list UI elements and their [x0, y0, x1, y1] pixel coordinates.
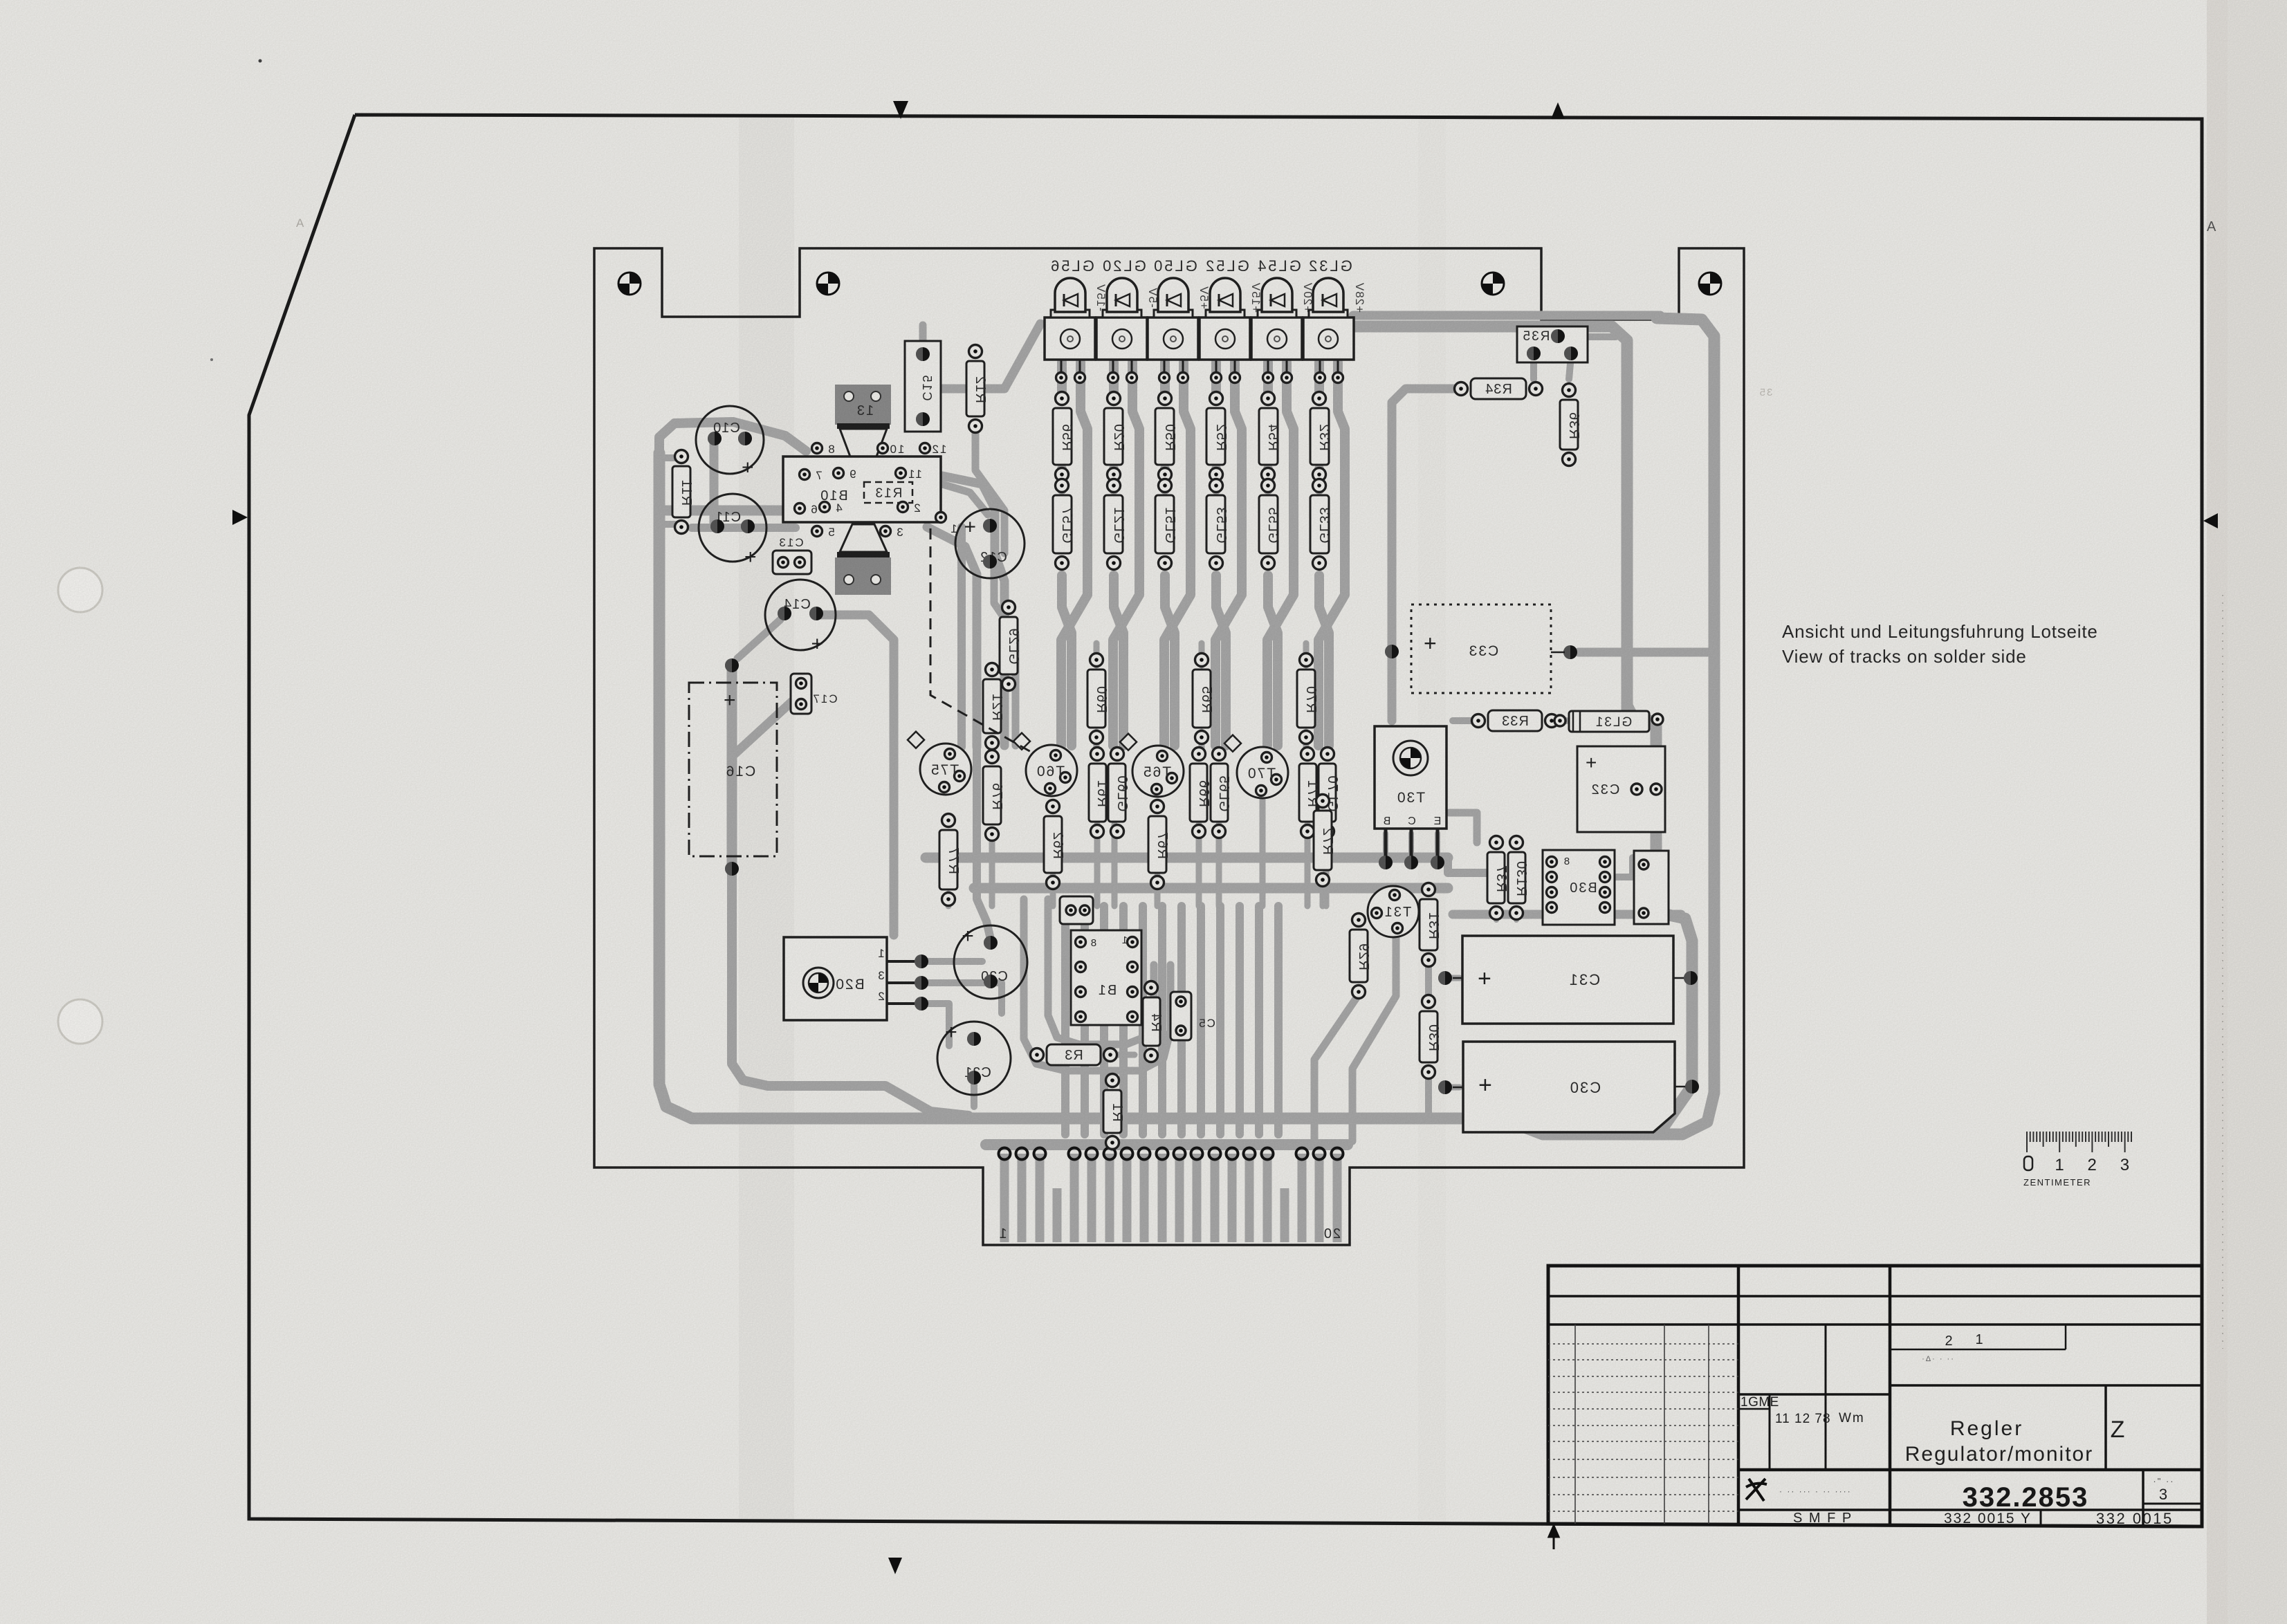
- wire: [1164, 362, 1191, 746]
- wire: [921, 983, 1002, 1013]
- wire: [733, 701, 792, 755]
- transistor T60: [1013, 733, 1077, 796]
- wire: [1263, 362, 1273, 400]
- wire: [659, 454, 681, 461]
- wire: [1553, 717, 1566, 724]
- wire: [1114, 575, 1123, 746]
- diode GL31: [1554, 711, 1663, 732]
- wire: [1627, 705, 1692, 1132]
- wire: [1392, 389, 1463, 721]
- wire: [919, 325, 927, 354]
- resistor R65: [1193, 654, 1214, 744]
- wire: [1094, 824, 1101, 906]
- wire: [1081, 906, 1089, 1134]
- wire: [1561, 333, 1616, 340]
- wire: [1109, 469, 1119, 490]
- wire: [1267, 362, 1294, 746]
- wire: [1303, 732, 1310, 754]
- wire: [1255, 906, 1263, 1134]
- wire: [1139, 906, 1147, 1134]
- capacitor C11: [699, 494, 766, 569]
- wire: [1268, 575, 1278, 746]
- resistor R31: [1420, 883, 1441, 967]
- regulator B20: [784, 937, 928, 1020]
- wire: [1050, 876, 1056, 906]
- wire: [798, 683, 805, 708]
- wire: [1449, 813, 1477, 842]
- capacitor C30: [1438, 1042, 1699, 1132]
- wire: [942, 476, 1004, 746]
- wire: [1094, 643, 1100, 665]
- wire: [1113, 362, 1139, 746]
- resistor R71: [1299, 748, 1320, 838]
- wire: [971, 1079, 977, 1107]
- wire: [727, 665, 737, 869]
- dashed outline lead: [930, 528, 1032, 753]
- wire: [1323, 824, 1330, 906]
- wire: [1435, 833, 1440, 861]
- wire: [1024, 899, 1170, 1071]
- resistor R34: [1455, 378, 1543, 399]
- wire: [989, 830, 995, 906]
- wire: [1110, 1138, 1116, 1148]
- registration mark: [618, 273, 641, 295]
- capacitor C10: [696, 406, 764, 479]
- wire: [1199, 643, 1205, 665]
- wire: [1319, 575, 1329, 746]
- wire: [1100, 906, 1108, 1134]
- wire: [1274, 906, 1283, 1134]
- wire: [659, 318, 1714, 1134]
- LED GL56: [1045, 257, 1095, 383]
- wire: [1314, 362, 1324, 400]
- resistor GL70: [1319, 748, 1340, 838]
- wire: [1155, 876, 1161, 906]
- resistor R60: [1087, 654, 1109, 744]
- arrow mark title block: [1549, 1526, 1559, 1549]
- wire: [975, 425, 1004, 553]
- resistor GL51: [1155, 479, 1177, 570]
- resistor R76: [983, 750, 1004, 841]
- wire: [666, 506, 796, 516]
- PCB board outline: [594, 248, 1744, 1245]
- resistor R36: [1560, 384, 1581, 466]
- capacitor C15: [905, 341, 941, 432]
- capacitor C32: [1577, 746, 1665, 832]
- wire: [1303, 643, 1310, 665]
- wire: [1425, 1071, 1432, 1119]
- transistor T75: [908, 732, 971, 795]
- resistor R67: [1148, 800, 1170, 889]
- wire: [942, 484, 988, 515]
- drawing frame: [249, 115, 2202, 1526]
- capacitor C5: [1170, 992, 1215, 1040]
- transistor T70: [1224, 735, 1288, 798]
- wire: [1260, 797, 1266, 906]
- bracket lower: [835, 524, 891, 595]
- center mark left: [232, 510, 248, 525]
- hole punch: [58, 568, 102, 612]
- wire: [1160, 362, 1170, 400]
- resistor R1: [1103, 1074, 1125, 1150]
- resistor GL55: [1259, 479, 1280, 570]
- capacitor C17: [791, 674, 838, 714]
- resistor R66: [1190, 748, 1211, 838]
- resistor R52: [1206, 392, 1229, 481]
- bracket 13 upper: [835, 385, 891, 462]
- wire: [820, 615, 894, 935]
- wire: [1110, 1052, 1135, 1058]
- capacitor C31: [1438, 936, 1698, 1024]
- wire: [1062, 575, 1072, 746]
- wire: [921, 1004, 949, 1046]
- resistor R77: [939, 814, 961, 906]
- scale ruler: [2027, 1132, 2131, 1152]
- resistor R54: [1259, 392, 1280, 481]
- wire: [1448, 858, 1487, 873]
- center mark right: [2203, 513, 2218, 528]
- resistor R3: [1031, 1044, 1117, 1065]
- LED GL20: [1096, 257, 1147, 383]
- resistor GL33: [1310, 479, 1332, 570]
- wire: [659, 422, 806, 477]
- capacitor C13: [773, 536, 811, 574]
- LED GL32: [1303, 257, 1354, 383]
- wire: [1199, 732, 1205, 754]
- wire: [659, 521, 681, 528]
- resistor R21: [983, 663, 1004, 750]
- wire: [1112, 824, 1118, 906]
- capacitor C12: [955, 509, 1025, 578]
- wire: [1569, 356, 1571, 379]
- wire: [1530, 356, 1537, 379]
- wire: [1165, 575, 1175, 746]
- wire: [732, 870, 968, 1116]
- wire: [1236, 906, 1244, 1134]
- wire: [1453, 910, 1681, 919]
- center mark top: [893, 101, 908, 119]
- wire: [1353, 311, 1660, 320]
- wire: [1383, 833, 1388, 861]
- wire: [1109, 362, 1119, 400]
- resistor R11: [672, 450, 694, 534]
- resistor R37: [1487, 836, 1509, 920]
- wire: [1061, 906, 1069, 1134]
- resistor R62: [1044, 800, 1065, 889]
- wire: [926, 853, 1448, 863]
- wire: [1314, 469, 1324, 490]
- wire: [1263, 469, 1273, 490]
- wire: [1057, 469, 1067, 490]
- wire: [1352, 931, 1396, 1141]
- wire: [1579, 648, 1714, 657]
- wire: [1314, 995, 1359, 1141]
- wire: [1445, 975, 1460, 981]
- wire: [1445, 1085, 1460, 1091]
- wire: [1196, 824, 1202, 906]
- wire: [994, 562, 1016, 746]
- resistor GL57: [1053, 479, 1074, 570]
- IC B10: [783, 443, 957, 539]
- wire: [692, 524, 796, 532]
- capacitor C16: [689, 658, 777, 876]
- capacitor C14: [765, 580, 836, 655]
- wire: [737, 620, 780, 658]
- resistor R130: [1508, 836, 1529, 920]
- LED GL52: [1200, 257, 1250, 383]
- hole punch: [58, 999, 102, 1044]
- LED GL54: [1251, 257, 1302, 383]
- center mark top right: [1551, 102, 1565, 119]
- wire: [1514, 912, 1519, 920]
- wire: [957, 527, 966, 747]
- wire: [1197, 906, 1205, 1134]
- capacitor C20: [954, 925, 1027, 999]
- LED GL50: [1148, 257, 1198, 383]
- resistor R4: [1143, 981, 1164, 1062]
- resistor R20: [1104, 392, 1126, 481]
- wire: [986, 1139, 1348, 1150]
- resistor R50: [1155, 392, 1177, 481]
- wire: [1215, 362, 1242, 746]
- capacitor C3: [1060, 896, 1093, 924]
- resistor R56: [1053, 392, 1074, 481]
- wire: [1319, 362, 1345, 746]
- capacitor C33: [1385, 605, 1577, 693]
- resistor R30: [1420, 995, 1441, 1079]
- power transistor T30: [1375, 726, 1446, 869]
- wire: [1616, 858, 1633, 877]
- resistor R35: [1517, 326, 1588, 362]
- wire: [921, 958, 982, 965]
- resistor R70: [1297, 654, 1319, 744]
- wire: [1216, 824, 1222, 906]
- wire: [977, 747, 991, 939]
- registration mark: [1482, 273, 1504, 295]
- wire: [1048, 899, 1154, 1044]
- wire: [1305, 824, 1311, 906]
- wire: [1453, 717, 1478, 724]
- resistor R29: [1350, 914, 1371, 999]
- capacitor C34: [1634, 851, 1669, 924]
- signature scribble: [1746, 1479, 1767, 1501]
- resistor R61: [1089, 748, 1110, 838]
- wire: [1160, 469, 1170, 490]
- wire: [974, 883, 1448, 894]
- resistor R12: [966, 345, 988, 433]
- resistor GL60: [1108, 748, 1130, 838]
- wire: [1216, 906, 1224, 1134]
- wire: [1119, 906, 1128, 1134]
- center mark bottom: [888, 1558, 902, 1574]
- resistor GL53: [1206, 479, 1229, 570]
- registration mark: [817, 273, 839, 295]
- IC B30: [1543, 850, 1615, 925]
- IC B1: [1071, 930, 1141, 1025]
- wire: [1425, 960, 1432, 1002]
- wire: [927, 527, 977, 747]
- resistor R72: [1314, 795, 1335, 887]
- resistor R33: [1472, 710, 1559, 731]
- capacitor C21: [937, 1021, 1011, 1095]
- wire: [1094, 732, 1100, 754]
- wire: [928, 324, 1040, 389]
- connector fingers: [1004, 1154, 1337, 1242]
- wire: [1494, 912, 1499, 920]
- transistor T65: [1120, 734, 1184, 797]
- transistor T31: [1368, 886, 1419, 937]
- resistor GL21: [1104, 479, 1126, 570]
- wire: [1211, 362, 1221, 400]
- title block lines: [1548, 1266, 2202, 1526]
- wire: [710, 440, 719, 527]
- wire: [1158, 906, 1166, 1134]
- wire: [1057, 362, 1067, 400]
- connector finger pads: [999, 1148, 1343, 1160]
- resistor R32: [1310, 392, 1332, 481]
- resistor GL65: [1211, 748, 1231, 838]
- wire: [946, 894, 952, 906]
- wire: [1320, 876, 1326, 906]
- wire: [1408, 833, 1414, 861]
- resistor GL29: [1000, 601, 1021, 691]
- wire: [1216, 575, 1226, 746]
- wire: [1211, 469, 1221, 490]
- wire: [1061, 362, 1087, 746]
- wire: [1353, 326, 1627, 710]
- wire: [1177, 906, 1186, 1134]
- registration mark: [1699, 273, 1721, 295]
